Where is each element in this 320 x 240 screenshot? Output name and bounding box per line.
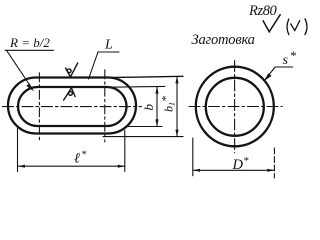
circle vertical centerline [234,61,236,153]
dim l extension right [124,131,126,172]
dim l line [18,165,125,167]
leader s [266,67,293,79]
dim b1 extension top [108,76,183,77]
svg-text:b1*: b1* [159,96,177,112]
dim b1 line [176,76,178,136]
right vertical centerline [104,70,106,142]
dim b1 arrows [175,76,178,136]
blank outer circle [196,67,274,147]
link outer contour [8,78,136,134]
leader R=b/2 [5,50,54,88]
link inner contour [18,87,127,126]
svg-text:R = b/2: R = b/2 [9,35,50,50]
parenthesized check [287,19,307,35]
dim l arrows [18,165,125,168]
svg-text:Заготовка: Заготовка [192,32,255,48]
blank inner circle [206,78,264,136]
leader s arrowhead [264,73,272,81]
dim b extension bottom [127,126,162,128]
dim b1 extension bottom [103,136,183,138]
horizontal centerline [3,106,142,108]
leader R arrowhead [26,84,34,92]
svg-text:b: b [141,104,156,111]
leader L [89,52,120,79]
dim b arrows [155,87,158,127]
dim l extension left [17,128,19,172]
dim D extension right [273,148,275,178]
big roughness check [263,15,280,32]
svg-text:s*: s* [283,48,297,68]
roughness mark on outer top [66,63,78,77]
svg-text:ℓ*: ℓ* [74,149,87,167]
left vertical centerline [38,73,40,142]
svg-text:L: L [104,38,113,53]
dim b extension top [107,85,165,88]
dim D extension left [192,138,194,176]
svg-text:Rz80: Rz80 [248,3,278,19]
dim b line [156,87,158,127]
roughness mark under inner top [64,88,76,100]
dim D arrows [193,169,274,172]
dim D line [193,169,274,171]
circle horizontal centerline [189,106,282,108]
